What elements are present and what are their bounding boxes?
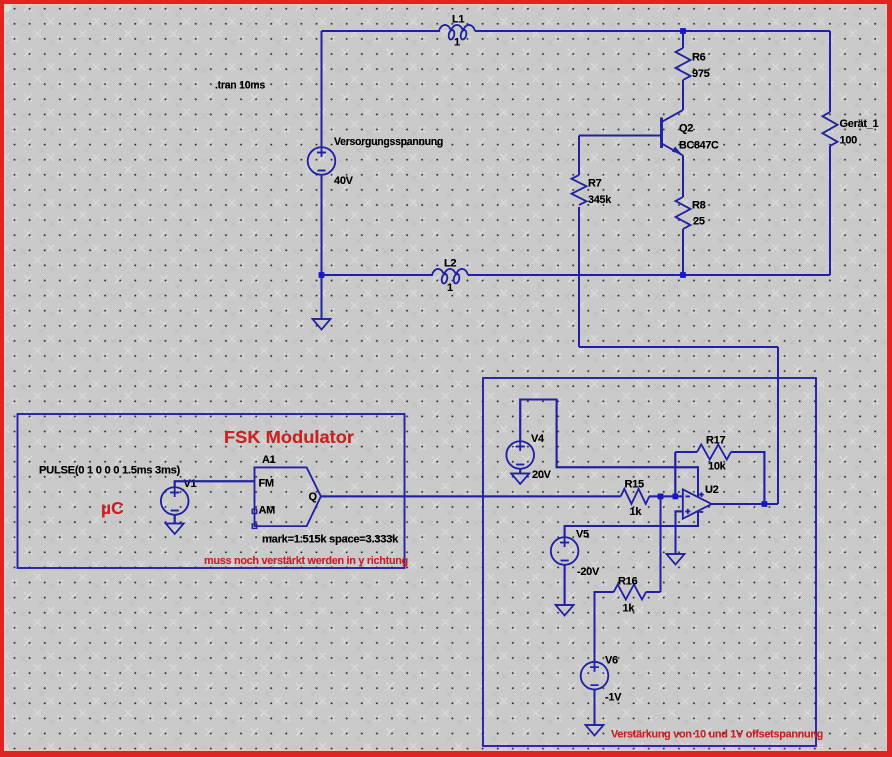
wire bottom rail right of L2 bbox=[468, 274, 830, 276]
voltage source Versorgungsspannung bbox=[308, 136, 443, 187]
wire R16 left lead to V6 bbox=[595, 592, 614, 662]
box FSK modulator bbox=[18, 414, 405, 568]
wire horizontal to output column bbox=[579, 346, 778, 348]
svg-text:V5: V5 bbox=[576, 529, 589, 541]
svg-text:R15: R15 bbox=[625, 479, 644, 491]
svg-text:25: 25 bbox=[693, 216, 705, 228]
transistor Q2 BC847C bbox=[662, 110, 719, 156]
wire V4 plus rail bbox=[520, 400, 698, 497]
svg-text:U2: U2 bbox=[705, 484, 719, 496]
voltage source V6 bbox=[581, 655, 622, 704]
svg-text:Gerät_1: Gerät_1 bbox=[840, 118, 879, 130]
svg-text:345k: 345k bbox=[588, 194, 612, 206]
wire right branch upper bbox=[829, 31, 831, 112]
resistor R15 bbox=[621, 489, 650, 504]
resistor R8 bbox=[676, 197, 691, 229]
wire bottom rail left of L2 bbox=[322, 274, 434, 276]
svg-text:mark=1.515k space=3.333k: mark=1.515k space=3.333k bbox=[262, 534, 399, 546]
wire R17 right lead bbox=[731, 452, 764, 501]
voltage source V5 bbox=[551, 529, 600, 579]
svg-text:1: 1 bbox=[454, 37, 460, 49]
ground V1 bbox=[166, 524, 184, 535]
wire R6 to Q2 collector bbox=[682, 80, 684, 110]
svg-text:R16: R16 bbox=[618, 576, 637, 588]
wire supply vertical lower bbox=[321, 175, 323, 320]
wire R6 top lead bbox=[682, 31, 684, 48]
wire V6 bottom bbox=[594, 690, 596, 726]
wire Q2 emitter to R8 bbox=[682, 156, 684, 198]
wire output column down bbox=[777, 347, 779, 504]
voltage source V1 bbox=[161, 478, 197, 515]
node junction output / R17 bbox=[762, 501, 768, 507]
svg-text:R7: R7 bbox=[588, 178, 602, 190]
wire R16 right lead bbox=[646, 591, 661, 593]
svg-text:L1: L1 bbox=[452, 14, 464, 26]
resistor R16 bbox=[614, 585, 646, 600]
modulator A1 bbox=[252, 454, 321, 528]
ground V4 bbox=[511, 474, 529, 485]
wire opamp minus rail bbox=[565, 511, 698, 537]
svg-text:V4: V4 bbox=[531, 433, 545, 445]
svg-text:-20V: -20V bbox=[577, 566, 600, 578]
node junction R17 tap bbox=[673, 494, 679, 500]
svg-text:Versorgungsspannung: Versorgungsspannung bbox=[334, 136, 443, 148]
svg-text:L2: L2 bbox=[444, 258, 456, 270]
FSK MODULATOR BOX bbox=[18, 414, 409, 568]
svg-text:975: 975 bbox=[692, 68, 710, 80]
ground opamp plus bbox=[667, 554, 685, 565]
node junction bottom rail left bbox=[319, 272, 325, 278]
wire supply vertical upper bbox=[321, 31, 323, 148]
AMPLIFIER BOX bbox=[483, 378, 823, 746]
ground supply bbox=[313, 319, 331, 330]
resistor Geraet_1 bbox=[823, 112, 838, 146]
voltage source V4 bbox=[506, 433, 551, 481]
wire R17 left vertical bbox=[674, 452, 676, 494]
wire R7 down bbox=[578, 207, 580, 347]
wire R7 top lead bbox=[578, 136, 580, 176]
svg-text:-1V: -1V bbox=[605, 692, 622, 704]
node junction bottom rail / R8 bbox=[680, 272, 686, 278]
svg-text:V1: V1 bbox=[184, 478, 197, 490]
svg-text:10k: 10k bbox=[708, 461, 727, 473]
svg-text:µC: µC bbox=[101, 498, 124, 518]
wire right branch lower bbox=[829, 146, 831, 275]
wire R17 left lead bbox=[675, 451, 697, 453]
wire R8 bottom lead bbox=[682, 229, 684, 275]
svg-text:1k: 1k bbox=[623, 603, 636, 615]
wire top rail right of L1 bbox=[475, 30, 830, 32]
svg-text:FSK Modulator: FSK Modulator bbox=[224, 427, 354, 447]
wire A1 output to R15 bbox=[321, 495, 621, 497]
svg-text:40V: 40V bbox=[334, 175, 354, 187]
svg-text:BC847C: BC847C bbox=[679, 140, 719, 152]
svg-text:FM: FM bbox=[259, 478, 274, 490]
node junction R16 tap bbox=[658, 494, 664, 500]
svg-text:20V: 20V bbox=[532, 469, 552, 481]
svg-text:Verstärkung von 10 und 1V offs: Verstärkung von 10 und 1V offsetspannung bbox=[611, 729, 823, 741]
wire V1 to FM bbox=[175, 481, 255, 487]
wire top rail left of L1 bbox=[322, 30, 441, 32]
ground V5 bbox=[556, 605, 574, 616]
resistor R6 bbox=[676, 48, 691, 80]
svg-text:1k: 1k bbox=[630, 506, 643, 518]
svg-text:.tran 10ms: .tran 10ms bbox=[215, 80, 265, 92]
svg-text:R8: R8 bbox=[692, 200, 706, 212]
box amplifier bbox=[483, 378, 816, 746]
svg-text:Q2: Q2 bbox=[679, 123, 693, 135]
wire opamp output bbox=[712, 503, 778, 505]
ground V6 bbox=[586, 725, 604, 736]
wire V5 bottom bbox=[564, 565, 566, 605]
inductor L2 bbox=[432, 269, 468, 284]
wire V1 bottom bbox=[174, 515, 176, 524]
svg-text:1: 1 bbox=[447, 282, 453, 294]
inductor L1 bbox=[439, 25, 475, 40]
wire R15 to opamp bbox=[649, 495, 683, 497]
svg-text:100: 100 bbox=[840, 135, 858, 147]
wire opamp plus input to ground bbox=[676, 511, 683, 554]
svg-text:Q: Q bbox=[309, 491, 318, 503]
wire R16 vertical tap bbox=[660, 496, 662, 592]
svg-text:R6: R6 bbox=[692, 52, 706, 64]
svg-text:PULSE(0 1 0 0 0 1.5ms 3ms): PULSE(0 1 0 0 0 1.5ms 3ms) bbox=[39, 465, 181, 477]
svg-text:R17: R17 bbox=[706, 435, 725, 447]
wire V4 bottom bbox=[519, 469, 521, 474]
resistor R17 bbox=[697, 445, 731, 460]
resistor R7 bbox=[572, 175, 587, 205]
MAIN CIRCUIT bbox=[215, 14, 879, 505]
svg-text:V6: V6 bbox=[605, 655, 618, 667]
node junction top rail / R6 bbox=[680, 28, 686, 34]
svg-text:AM: AM bbox=[259, 505, 276, 517]
svg-text:muss noch verstärkt werden in: muss noch verstärkt werden in y richtung bbox=[204, 555, 408, 567]
wire Q2 base bbox=[579, 135, 662, 137]
svg-text:A1: A1 bbox=[262, 454, 276, 466]
border frame bbox=[0, 0, 892, 4]
op-amp U2 bbox=[683, 484, 719, 519]
